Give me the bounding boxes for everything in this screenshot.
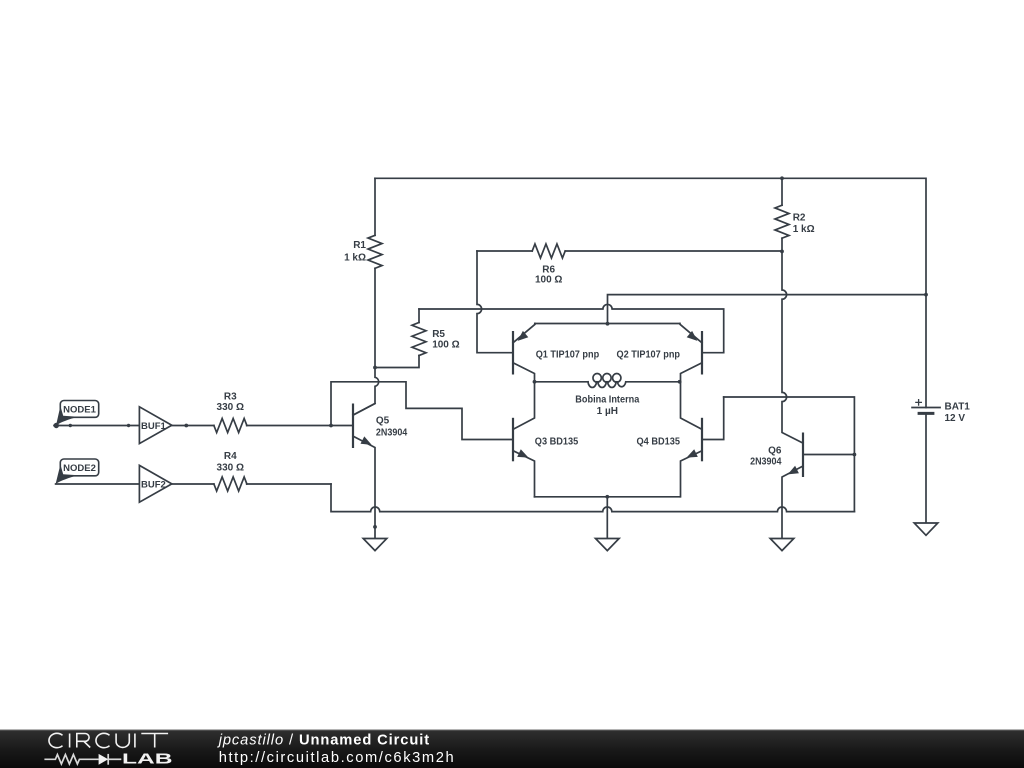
svg-text:Q4 BD135: Q4 BD135 (637, 436, 681, 447)
svg-text:R2: R2 (793, 213, 806, 224)
svg-text:Q3 BD135: Q3 BD135 (535, 436, 579, 447)
svg-text:100 Ω: 100 Ω (432, 340, 459, 351)
svg-text:NODE2: NODE2 (63, 463, 96, 474)
svg-text:R4: R4 (224, 451, 237, 462)
svg-text:Bobina Interna: Bobina Interna (575, 395, 639, 406)
svg-text:http://circuitlab.com/c6k3m2h: http://circuitlab.com/c6k3m2h (219, 750, 456, 766)
svg-text:R1: R1 (353, 240, 366, 251)
svg-text:LAB: LAB (122, 751, 173, 768)
svg-text:Q1 TIP107 pnp: Q1 TIP107 pnp (536, 349, 600, 360)
svg-text:Q2 TIP107 pnp: Q2 TIP107 pnp (617, 349, 681, 360)
svg-text:Q5: Q5 (376, 416, 390, 427)
svg-text:BUF2: BUF2 (141, 480, 166, 491)
svg-text:1 kΩ: 1 kΩ (344, 253, 366, 264)
svg-text:2N3904: 2N3904 (750, 457, 782, 468)
svg-text:BUF1: BUF1 (141, 421, 167, 432)
svg-text:2N3904: 2N3904 (376, 428, 408, 439)
svg-text:Q6: Q6 (768, 445, 782, 456)
svg-text:12 V: 12 V (945, 413, 966, 424)
svg-text:NODE1: NODE1 (63, 405, 96, 416)
svg-text:R5: R5 (432, 329, 445, 340)
svg-text:330 Ω: 330 Ω (217, 463, 244, 474)
svg-text:330 Ω: 330 Ω (217, 402, 244, 413)
svg-text:jpcastillo / Unnamed Circuit: jpcastillo / Unnamed Circuit (217, 732, 430, 748)
svg-text:BAT1: BAT1 (945, 401, 971, 412)
svg-text:100 Ω: 100 Ω (535, 275, 562, 286)
svg-text:1 µH: 1 µH (597, 406, 618, 417)
svg-text:1 kΩ: 1 kΩ (793, 224, 815, 235)
